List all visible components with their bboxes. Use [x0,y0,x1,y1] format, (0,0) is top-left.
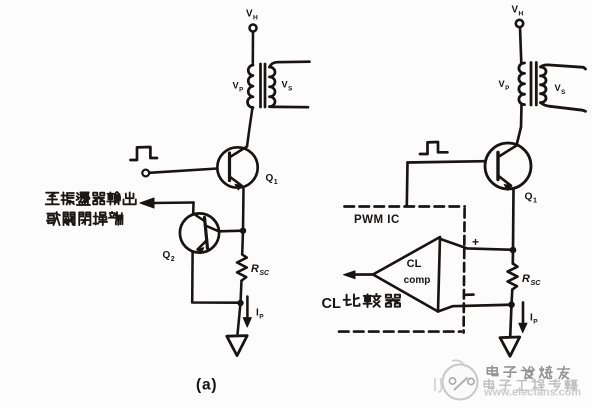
svg-text:comp: comp [404,275,431,286]
svg-text:RSC: RSC [251,263,270,277]
svg-text:CL: CL [322,296,341,312]
svg-text:CL: CL [407,258,422,270]
svg-text:Q1: Q1 [525,192,538,205]
svg-text:VP: VP [499,79,510,92]
svg-text:+: + [472,235,479,249]
svg-text:VH: VH [512,5,524,18]
svg-text:VS: VS [282,80,293,93]
svg-text:IP: IP [530,313,538,326]
svg-text:IP: IP [256,308,264,321]
svg-text:VH: VH [246,9,258,22]
svg-text:PWM IC: PWM IC [354,214,400,226]
svg-text:VS: VS [555,83,566,96]
svg-text:RSC: RSC [522,273,541,287]
svg-text:www.elecfans.com: www.elecfans.com [483,387,581,399]
svg-text:Q2: Q2 [163,250,175,263]
svg-text:Q1: Q1 [266,173,278,186]
svg-text:VP: VP [233,81,244,94]
svg-text:(a): (a) [196,377,217,394]
